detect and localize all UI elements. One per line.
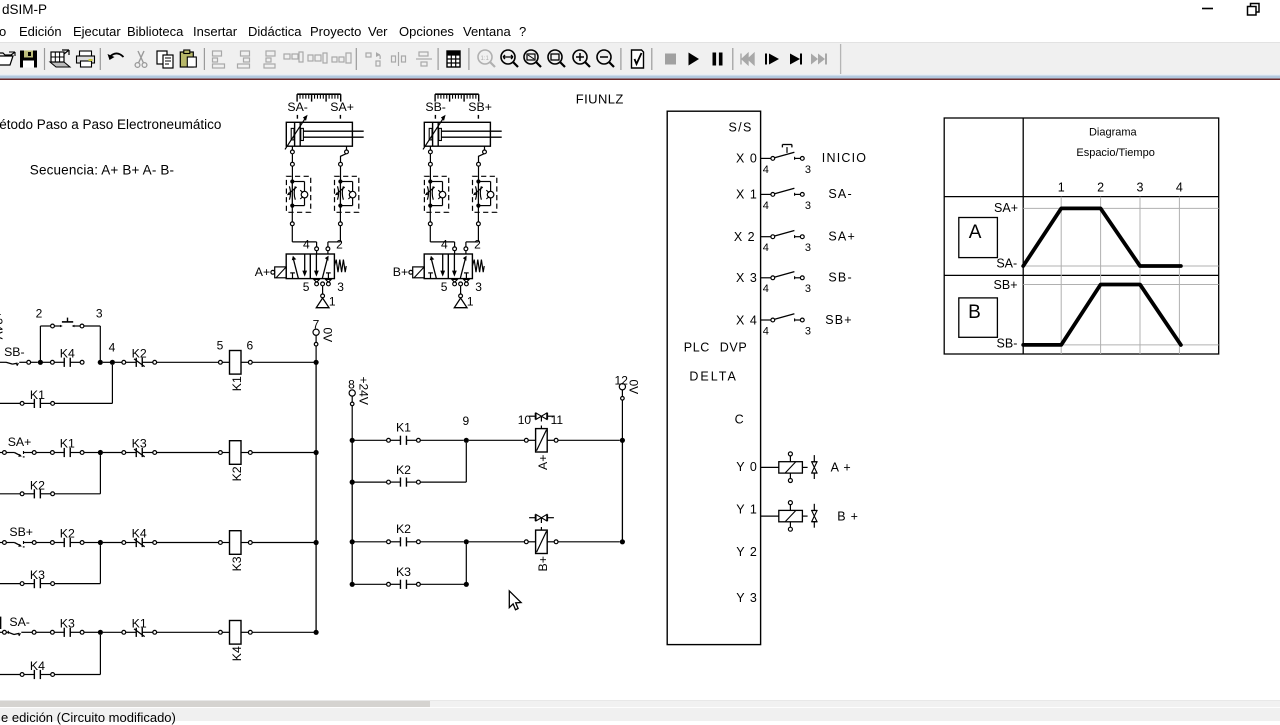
svg-text:SA+: SA+ [330,100,354,114]
svg-text:SB+: SB+ [468,100,492,114]
wire coil to 0V rail rung 3 [252,542,316,544]
hold contact K3 (NO) branch rung 3 [0,583,20,585]
svg-text:B+: B+ [536,556,550,571]
svg-text:Diagrama: Diagrama [1089,127,1138,139]
relay contact K1 (NO) rung 2 [51,448,85,457]
cylinder A designation box [959,218,998,258]
svg-text:SA+: SA+ [828,230,856,244]
svg-text:3: 3 [805,242,811,254]
cylinder B piston rod [441,130,501,132]
svg-text:DELTA: DELTA [689,370,737,384]
wire node 2 to contact [40,361,50,363]
valve B top port terminals [453,247,457,251]
node 4 [110,360,115,365]
wire flow valve B left output [429,206,431,222]
valve VA bottom port terminals [315,282,319,286]
svg-text:7: 7 [313,317,320,331]
svg-text:5: 5 [441,280,448,294]
rail junction rung 2 [314,450,319,455]
svg-text:X 3: X 3 [736,271,758,285]
junction node rung 4 [98,630,103,635]
relay coil K4 [219,621,253,645]
svg-text:Y 2: Y 2 [736,545,758,559]
relay contact K1 (NO) mid [387,436,421,445]
svg-text:K1: K1 [132,616,147,630]
wire node 3 to node 4 to NC contact [103,361,110,363]
svg-text:1: 1 [1058,181,1065,195]
one-way flow control valve A left [286,176,310,212]
svg-text:Espacio/Tiempo: Espacio/Tiempo [1076,147,1154,159]
wire hold branch rung 3 [55,583,101,585]
cylinder A ruler scale [297,94,341,101]
wire coil to 0V rail rung 4 [252,631,316,633]
junction node mid B row [464,539,469,544]
svg-text:4: 4 [763,200,769,212]
rail junction rung 1 [314,360,319,365]
rail junction rung 3 [314,540,319,545]
rail junction rung 4 [314,630,319,635]
svg-text:B: B [968,302,981,323]
suppressor diode across B+ [529,514,554,530]
wire cylinder A left port [291,146,293,150]
svg-text:DVP: DVP [720,340,748,354]
svg-text:FIUNLZ: FIUNLZ [576,92,624,107]
wire rung 1 switch to node 2 [31,361,38,363]
junction node rung 2 [98,450,103,455]
PLC module DVP DELTA outline [667,111,760,644]
svg-text:SA-: SA- [996,257,1017,271]
cylinder B ruler scale [435,94,479,101]
hold contact K1 (NO) branch rung 1 [0,402,20,404]
solenoid coil B+ [524,530,558,553]
cylinder B designation box [959,298,998,337]
wire 0V rail ladder [315,362,317,632]
svg-text:K2: K2 [230,466,244,481]
output solenoid A+ at Y0 [761,452,808,483]
svg-text:4: 4 [441,237,448,251]
limit switch SA+ rung 2 [0,451,36,457]
cylinder A body [286,122,352,146]
svg-text:3: 3 [805,200,811,212]
svg-text:4: 4 [763,283,769,295]
svg-text:4: 4 [763,242,769,254]
0V rail junction B+ row [620,539,625,544]
svg-text:K3: K3 [60,617,75,631]
svg-text:8: 8 [348,377,355,391]
svg-text:A+: A+ [536,455,550,470]
svg-text:Secuencia: A+ B+ A- B-: Secuencia: A+ B+ A- B- [30,163,174,178]
solenoid pilot B+ valve VB [409,267,424,278]
svg-text:K4: K4 [60,347,75,361]
svg-text:A +: A + [831,461,852,475]
wire rung 3 switch to contact [36,542,50,544]
wire NC contact to coil rung 1 [157,361,219,363]
svg-text:A+: A+ [255,265,270,279]
svg-text:étodo Paso a Paso Electroneumá: étodo Paso a Paso Electroneumático [0,117,221,132]
svg-text:1: 1 [467,295,474,309]
svg-text:4: 4 [763,164,769,176]
relay contact K2 (NO) mid [387,537,421,546]
svg-text:X 0: X 0 [736,152,758,166]
input switch SB+ at X4 [761,314,805,322]
svg-text:K4: K4 [30,659,45,673]
svg-text:SA+: SA+ [994,201,1018,215]
wire node to solenoid A+ [469,439,525,441]
limit switch SB- rung 1 [0,360,31,366]
wire rail to branch contact K2 [352,481,386,483]
svg-text:SB-: SB- [997,337,1018,351]
wire rail to branch contact K3 [352,583,386,585]
wire rail to contact K1 [352,439,386,441]
wire valve A port 4 elbow [292,241,316,243]
relay contact K3 (NC) rung 2 [122,448,157,457]
trace cylinder B displacement [1023,285,1181,345]
rail junction mid row A+ [350,438,355,443]
node 9 [464,438,469,443]
cylinder A piston rod [303,130,363,132]
hold contact K4 (NO) branch rung 4 [0,674,20,676]
svg-text:K1: K1 [30,388,45,402]
svg-text:SA-: SA- [9,615,30,629]
input switch SA+ at X2 [761,231,805,239]
displacement-time diagram table frame [944,118,1218,354]
svg-text:INICIO: INICIO [822,151,867,165]
svg-text:SA-: SA- [287,100,308,114]
wire node to solenoid B+ [469,541,525,543]
wire junction to NC contact rung 3 [103,542,122,544]
+24V supply terminal node 8 [349,390,355,440]
valve VA exhaust triangles [314,280,319,283]
wire valve A port 2 elbow [328,241,341,243]
svg-text:SB-: SB- [4,345,25,359]
svg-text:0V: 0V [627,380,641,395]
limit switch SA- rung 4 [0,630,36,636]
wire NC contact to coil rung 3 [157,542,219,544]
cylinder B body [424,122,490,146]
svg-text:12: 12 [615,373,629,387]
wire branch K2 to junction [420,481,466,483]
output solenoid B+ at Y1 [761,501,808,532]
svg-text:C: C [735,412,744,426]
svg-text:X 1: X 1 [736,188,758,202]
5/2-way valve VB body [424,254,472,279]
svg-text:S/S: S/S [729,121,753,135]
wire contact to node mid A+ [420,439,463,441]
wire contact to junction rung 3 [84,542,98,544]
svg-text:2: 2 [336,237,343,251]
solenoid coil A+ [524,429,558,452]
0V supply terminal of ladder [313,329,319,362]
svg-text:9: 9 [462,414,469,428]
wire hold branch rung 2 [55,493,101,495]
svg-text:K1: K1 [396,421,411,435]
svg-text:K4: K4 [230,646,244,661]
limit switch SB+ rung 3 [0,541,36,547]
input switch SB- at X3 [761,272,805,280]
wire rail to contact K2 [352,541,386,543]
trace cylinder A displacement [1023,208,1181,266]
svg-text:3: 3 [805,283,811,295]
junction node mid branch K3 [464,582,469,587]
indicator diode at Y1 [811,504,817,528]
svg-text:K4: K4 [132,527,147,541]
svg-text:SB-: SB- [828,271,852,285]
svg-text:K1: K1 [230,376,244,391]
wire solenoid A+ to 0V rail [558,439,620,441]
svg-text:5: 5 [217,339,224,353]
svg-text:4: 4 [303,237,310,251]
wire branch K3 to junction [420,583,466,585]
svg-text:3: 3 [96,306,103,320]
mouse cursor [509,591,521,610]
wire valve B port 2 elbow [466,241,479,243]
wire flow valve A right output [339,206,341,222]
svg-text:3: 3 [337,280,344,294]
svg-text:Y 3: Y 3 [736,591,758,605]
hold contact K2 (NO) branch rung 2 [0,493,20,495]
svg-text:SA-: SA- [828,187,852,201]
wire contact to node mid B+ [420,541,463,543]
wire flow valve A left output [291,206,293,222]
0V supply terminal node 12 [619,384,625,441]
rail junction mid row B+ [350,539,355,544]
wire pushbutton to node 3 [84,325,100,327]
relay coil K1 [219,351,253,375]
wire solenoid B+ to 0V rail [558,541,620,543]
svg-text:2: 2 [474,237,481,251]
solenoid pilot A+ valve VA [271,267,286,278]
wire +24V rail mid [351,440,353,584]
svg-text:K2: K2 [60,527,75,541]
one-way flow control valve A right [335,176,359,212]
svg-text:X 2: X 2 [734,230,756,244]
relay contact K4 (NO) rung 1 [51,358,85,367]
svg-text:B +: B + [837,509,859,523]
wire cylinder B left port [429,146,431,150]
diagram grid lines [1023,197,1218,354]
node 3 [98,360,103,365]
wire rung 2 switch to contact [36,452,50,454]
relay contact K2 (NO) rung 3 [51,538,85,547]
svg-text:PLC: PLC [684,340,710,354]
wire NC contact to coil rung 2 [157,452,219,454]
svg-text:K3: K3 [30,568,45,582]
svg-text:K2: K2 [396,463,411,477]
relay contact K1 (NC) rung 4 [122,628,157,637]
svg-text:Y 0: Y 0 [736,460,758,474]
junction node rung 3 [98,540,103,545]
svg-text:6: 6 [246,339,253,353]
svg-text:+24V: +24V [357,377,371,405]
valve A top port terminals [315,247,319,251]
svg-text:11: 11 [551,413,564,427]
wire NC contact to coil rung 4 [157,631,219,633]
relay coil K3 [219,531,253,555]
relay contact K2 (NC) rung 1 [122,358,157,367]
relay contact K4 (NC) rung 3 [122,538,157,547]
svg-text:4: 4 [763,325,769,337]
svg-text:4: 4 [1176,181,1183,195]
wire 0V rail mid [621,440,623,542]
svg-text:K2: K2 [30,478,45,492]
wire coil to 0V rail rung 1 [252,361,316,363]
valve VB exhaust triangles [452,280,457,283]
input switch INICIO at X0 [761,145,805,161]
0V rail junction A+ row [620,438,625,443]
5/2-way valve VA body [286,254,334,279]
sensor position marks cylinder B [434,115,436,119]
start pushbutton INICIO branch wire left [39,326,41,362]
sensor position marks cylinder A [296,115,298,119]
return spring valve VA [334,260,346,273]
input switch SA- at X1 [761,188,805,196]
wire contact to junction rung 2 [84,452,98,454]
svg-text:Y 1: Y 1 [736,503,758,517]
wire contact to junction rung 4 [84,631,98,633]
wire valve B port 4 elbow [430,241,454,243]
pushbutton INICIO (NO) in parallel branch [51,318,84,328]
svg-text:3: 3 [805,325,811,337]
svg-text:K3: K3 [132,437,147,451]
svg-text:3: 3 [1137,181,1144,195]
svg-text:10: 10 [518,413,532,427]
wire cylinder B right port [484,146,486,150]
svg-text:3: 3 [475,280,482,294]
one-way flow control valve B left [424,176,448,212]
wire coil to 0V rail rung 2 [252,452,316,454]
rail junction mid branch K3 [350,582,355,587]
svg-text:A: A [969,222,982,243]
svg-text:1: 1 [329,295,336,309]
svg-text:+24V: +24V [0,311,5,339]
relay coil K2 [219,441,253,465]
cylinder A cushioning arrow [285,117,306,149]
air supply source valve B [460,286,462,294]
node 2 [38,360,43,365]
svg-text:B+: B+ [393,265,408,279]
svg-text:2: 2 [36,306,43,320]
wire hold branch rung 4 [55,674,101,676]
svg-text:SB+: SB+ [994,278,1018,292]
svg-text:4: 4 [109,340,116,354]
svg-text:5: 5 [303,280,310,294]
relay contact K2 (NO) mid branch [387,478,421,487]
svg-text:3: 3 [805,164,811,176]
wire junction to NC contact rung 2 [103,452,122,454]
svg-text:K3: K3 [396,565,411,579]
suppressor diode across A+ [529,413,554,429]
svg-text:SB+: SB+ [825,313,853,327]
rail junction mid branch K2 [350,480,355,485]
relay contact K3 (NO) rung 4 [51,628,85,637]
wire flow valve B right output [477,206,479,222]
return spring valve VB [472,260,484,273]
one-way flow control valve B right [473,176,497,212]
svg-text:X 4: X 4 [736,313,758,327]
svg-text:SB+: SB+ [9,525,33,539]
limit switch SA- actuator mark at screen edge [0,617,2,629]
valve VB bottom port terminals [453,282,457,286]
wire hold branch rung 1 [55,402,113,404]
cylinder B cushioning arrow [423,117,444,149]
svg-text:K3: K3 [230,556,244,571]
wire rung 4 switch to contact [36,631,50,633]
svg-text:SA+: SA+ [8,435,32,449]
relay contact K3 (NO) mid branch [387,580,421,589]
indicator diode at Y0 [811,455,817,479]
air supply source valve A [322,286,324,294]
wire cylinder A right port [346,146,348,150]
svg-text:0V: 0V [321,328,335,343]
svg-text:SB-: SB- [425,100,446,114]
svg-text:K2: K2 [132,346,147,360]
svg-text:K2: K2 [396,522,411,536]
svg-text:K1: K1 [60,437,75,451]
wire junction to NC contact rung 4 [103,631,122,633]
svg-text:2: 2 [1097,181,1104,195]
